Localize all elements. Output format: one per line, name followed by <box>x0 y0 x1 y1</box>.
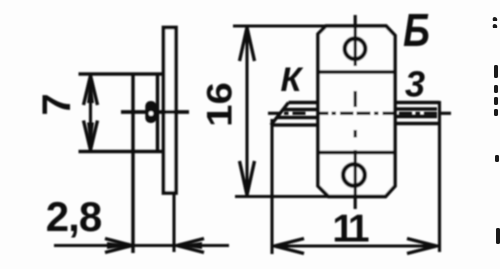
horizontal centerline <box>268 112 451 115</box>
front view body top edge line <box>318 70 395 74</box>
dimension 11 right arrowhead <box>407 239 437 254</box>
dimension 16 top extension line <box>233 24 326 27</box>
vertical centerline <box>354 15 357 209</box>
dimension 16 bottom extension line <box>235 195 329 198</box>
E tab top edge <box>395 101 440 104</box>
hole Б top <box>345 39 366 60</box>
dimension 7 arrow line <box>89 77 92 149</box>
svg-text:16: 16 <box>200 82 239 127</box>
dimension 16 arrow line <box>245 29 248 195</box>
svg-text:11: 11 <box>332 208 369 251</box>
dimension 2,8 right arrowhead <box>177 239 204 253</box>
E tab bottom edge <box>395 122 440 125</box>
svg-text:2,8: 2,8 <box>46 193 102 240</box>
hole bottom <box>343 164 365 186</box>
K tab chamfer diagonal <box>271 103 289 126</box>
dimension 7 arrowhead up <box>84 76 98 106</box>
dimension 16 arrowhead up <box>240 28 255 62</box>
dimension 2,8 left arrowhead <box>105 239 132 253</box>
E tab inner line 2 <box>395 115 437 118</box>
E tab end + 11-dim right extension line <box>438 101 441 252</box>
side view flange plate <box>164 28 177 194</box>
lead seal boss <box>146 102 156 123</box>
edge fragment 6 <box>495 155 499 162</box>
side view body top line with 7-dim extension <box>79 72 163 76</box>
side view body bottom line with 7-dim extension <box>79 150 163 154</box>
edge fragment 1 <box>493 17 498 21</box>
edge fragment 7 <box>496 228 500 244</box>
K tab top edge <box>289 101 319 104</box>
svg-text:К: К <box>281 61 304 99</box>
K tab inner line 2 <box>277 116 318 119</box>
dimension 7 arrowhead down <box>84 121 98 151</box>
front view body bottom edge line <box>318 151 395 155</box>
edge fragment 5 <box>494 109 498 116</box>
edge fragment 2 <box>494 65 498 78</box>
lead wire line <box>121 110 189 114</box>
svg-text:Б: Б <box>403 4 430 55</box>
svg-text:3: 3 <box>405 64 425 105</box>
flange right extension line for 2,8 <box>172 193 175 252</box>
svg-text:7: 7 <box>35 93 79 115</box>
E tab inner line 1 <box>395 107 437 110</box>
K tab bottom edge <box>271 123 318 126</box>
dimension 11 left arrowhead <box>275 239 305 254</box>
edge fragment 4 <box>494 97 498 105</box>
dimension 11 left extension line <box>270 119 273 254</box>
dimension 2,8 line <box>54 244 229 247</box>
front view plate outline with chamfered corners <box>318 26 395 197</box>
side view body left edge + 2,8 extension line <box>131 74 135 253</box>
side view body right edge <box>156 74 160 152</box>
K tab inner line 1 <box>283 108 318 111</box>
dimension 11 line <box>272 244 439 247</box>
dimension 16 arrowhead down <box>240 161 255 195</box>
edge fragment 3 <box>494 85 498 93</box>
